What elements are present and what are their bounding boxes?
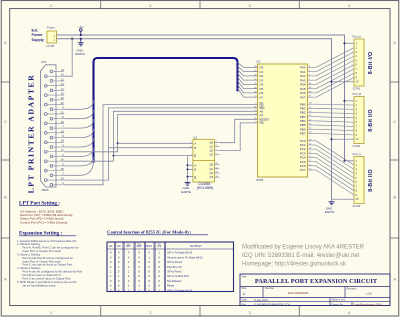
svg-text:A: A (195, 163, 197, 167)
svg-text:10: 10 (216, 176, 218, 178)
wire INIT to A0 (64, 111, 257, 161)
svg-text:Supply: Supply (32, 38, 45, 42)
bus data D0-D7 (94, 58, 238, 162)
svg-text:X: X (110, 279, 112, 283)
svg-text:1: 1 (216, 153, 217, 155)
svg-text:25: 25 (61, 73, 64, 77)
svg-text:Reset: Reset (167, 284, 174, 288)
svg-text:OP to Control Port: OP to Control Port (167, 274, 189, 278)
svg-text:B: B (394, 196, 397, 200)
svg-text:Drawn By:: Drawn By: (332, 302, 344, 306)
svg-text:+5V: +5V (78, 25, 83, 29)
svg-text:10: 10 (356, 137, 359, 141)
wire +5V to CON3 pin1 (343, 160, 345, 162)
svg-text:3: 3 (216, 145, 217, 147)
svg-text:PARALLEL PORT EXPANSION CIRCUI: PARALLEL PORT EXPANSION CIRCUIT (255, 278, 378, 285)
svg-text:EARTH: EARTH (75, 52, 84, 56)
svg-text:X: X (118, 288, 120, 292)
wires PC0-PC7 to CON3 (316, 141, 354, 165)
svg-text:1: 1 (190, 155, 191, 157)
svg-text:Q0: Q0 (210, 163, 214, 167)
svg-text:4: 4 (348, 311, 350, 315)
svg-text:4: 4 (216, 141, 217, 143)
svg-text:B: B (195, 168, 197, 172)
svg-text:X: X (118, 255, 120, 259)
power port +5V (80, 31, 82, 35)
wire Q2 to CS (220, 123, 258, 151)
bus entries from LPT data pins (64, 100, 93, 109)
wires PB0-PB7 to CON2 (316, 103, 354, 106)
svg-text:Q0: Q0 (210, 141, 214, 145)
svg-text:Ext.: Ext. (32, 29, 39, 33)
svg-text:EARTH: EARTH (181, 190, 191, 194)
svg-text:2: 2 (190, 142, 191, 144)
svg-text:Control Port (PC) = 5-Bits (Ou: Control Port (PC) = 5-Bits (Output) (20, 220, 67, 224)
svg-text:21: 21 (61, 110, 64, 114)
wire GND to CON3 pin10 and earth (332, 198, 355, 200)
svg-text:Control function of 8255 IC (F: Control function of 8255 IC (For Mode-0)… (107, 230, 192, 235)
svg-text:1: 1 (50, 311, 52, 315)
svg-text:IC3: IC3 (256, 60, 261, 64)
svg-text:X: X (128, 251, 130, 255)
svg-text:1.00: 1.00 (366, 292, 372, 296)
wire tap to U2 B (109, 147, 193, 149)
svg-text:OP in Tri-State (Hi-Z): OP in Tri-State (Hi-Z) (167, 251, 192, 255)
svg-text:X: X (128, 255, 130, 259)
svg-text:12: 12 (61, 77, 64, 81)
svg-text:23: 23 (61, 92, 64, 96)
svg-text:4: 4 (348, 4, 350, 8)
svg-text:CS: CS (157, 244, 161, 248)
svg-text:Title: Title (242, 274, 247, 278)
svg-text:File: File (242, 302, 247, 306)
svg-text:5-Jan-2001: 5-Jan-2001 (254, 298, 269, 302)
svg-text:14: 14 (61, 176, 64, 180)
svg-text:3: 3 (190, 147, 191, 149)
svg-text:2: 2 (149, 311, 151, 315)
wire +5V to CON1 pin1 (343, 42, 345, 44)
svg-text:10: 10 (356, 197, 359, 201)
svg-text:12: 12 (216, 167, 218, 169)
svg-text:OP to Port-C: OP to Port-C (167, 269, 182, 273)
svg-text:8255: 8255 (257, 178, 264, 182)
svg-text:Port_B: Port_B (353, 92, 362, 96)
svg-text:8-Bit I/O: 8-Bit I/O (368, 52, 374, 75)
svg-text:Port_C: Port_C (353, 152, 362, 156)
wire GND to CON2 pin10 (330, 138, 332, 140)
wire tap to U2 A (117, 142, 119, 144)
svg-text:2: 2 (149, 4, 151, 8)
title block (240, 274, 390, 306)
svg-text:Sheet 1 of 1: Sheet 1 of 1 (332, 298, 347, 302)
svg-text:13: 13 (61, 68, 64, 72)
svg-text:Number: Number (265, 286, 274, 290)
svg-text:X: X (118, 279, 120, 283)
svg-text:X: X (138, 251, 140, 255)
svg-text:10: 10 (61, 96, 64, 100)
svg-text:CS: CS (260, 121, 264, 125)
svg-text:OUTPUT: OUTPUT (190, 244, 202, 248)
svg-text:A: A (195, 142, 197, 146)
svg-text:11: 11 (61, 87, 64, 91)
ground GND EARTH under CON3 (331, 199, 333, 201)
svg-text:8-Bit I/O: 8-Bit I/O (368, 109, 374, 132)
svg-text:IC2: IC2 (193, 135, 198, 139)
wire +5V rail (57, 35, 345, 161)
ground GND EARTH under IC2 (185, 181, 191, 183)
svg-text:18: 18 (61, 139, 64, 143)
svg-text:3: 3 (249, 4, 251, 8)
svg-text:X: X (110, 255, 112, 259)
svg-text:All ports are in Tri-State (Hi: All ports are in Tri-State (Hi-Z) (167, 255, 203, 259)
svg-text:ICQ UIN: 52893381 E-mail: 4re: ICQ UIN: 52893381 E-mail: 4rester@ukr.ne… (242, 253, 360, 259)
svg-text:16: 16 (61, 158, 64, 162)
wire GND to CON1 pin10 (330, 81, 332, 83)
wire AUTOFD to WR (64, 108, 257, 180)
svg-text:Q1: Q1 (210, 167, 214, 171)
svg-text:Date: Date (242, 298, 248, 302)
wire +5V to CON2 pin1 (343, 100, 345, 102)
svg-text:Port-B to I/P: Port-B to I/P (167, 265, 182, 269)
svg-text:X: X (110, 284, 112, 288)
svg-text:CON1: CON1 (353, 87, 361, 91)
wire STROBE to RD (64, 105, 257, 185)
svg-text:X: X (138, 255, 140, 259)
svg-text:X: X (118, 284, 120, 288)
svg-text:CON4: CON4 (47, 44, 55, 48)
ground GND EARTH at power input (80, 39, 82, 43)
bus entries to IC3 data pins (238, 62, 258, 67)
svg-text:D: D (4, 41, 7, 45)
svg-text:D7: D7 (260, 95, 264, 99)
svg-text:Q2: Q2 (210, 149, 214, 153)
svg-text:PC7: PC7 (300, 168, 306, 172)
svg-text:Power: Power (32, 33, 44, 37)
svg-text:RST: RST (146, 244, 152, 248)
svg-text:2: 2 (216, 149, 217, 151)
svg-text:EARTH: EARTH (325, 210, 334, 214)
wire SELIN to A1 (64, 115, 257, 152)
svg-text:Port_A: Port_A (353, 35, 362, 39)
svg-text:Q3: Q3 (210, 153, 214, 157)
svg-text:(HC14555): (HC14555) (197, 186, 214, 190)
svg-text:8-Bit I/O: 8-Bit I/O (368, 169, 374, 192)
wires PA0-PA7 to CON1 (316, 48, 354, 68)
svg-text:X: X (158, 255, 160, 259)
svg-text:C: C (393, 120, 396, 124)
wire lower section inputs to ground chain (188, 164, 193, 166)
svg-text:DXA-00000026: DXA-00000026 (288, 291, 309, 295)
svg-text:B: B (4, 196, 7, 200)
svg-text:1: 1 (50, 4, 52, 8)
svg-text:DavidSilver Atomix (DSA): DavidSilver Atomix (DSA) (354, 304, 383, 307)
svg-text:X: X (110, 251, 112, 255)
svg-text:B: B (195, 146, 197, 150)
svg-text:A1: A1 (109, 244, 113, 248)
wire tap to U2 E (113, 155, 115, 157)
svg-text:15: 15 (61, 167, 64, 171)
zone ticks and labels (100, 1, 102, 9)
svg-text:A1: A1 (260, 113, 264, 117)
svg-text:DB25: DB25 (42, 188, 49, 192)
svg-text:22: 22 (61, 101, 64, 105)
svg-text:D:\HOBBY\EXPANDER.SCH: D:\HOBBY\EXPANDER.SCH (254, 303, 290, 307)
svg-text:OP in Tri-State (Hi-Z): OP in Tri-State (Hi-Z) (167, 288, 192, 292)
svg-text:X: X (110, 288, 112, 292)
svg-text:11: 11 (216, 172, 218, 174)
svg-text:PB7: PB7 (300, 131, 306, 135)
svg-text:set as handshaking mode: set as handshaking mode (23, 283, 56, 287)
svg-text:WR: WR (137, 244, 142, 248)
svg-text:13: 13 (216, 163, 218, 165)
svg-text:CON3: CON3 (353, 204, 361, 208)
svg-text:X: X (118, 251, 120, 255)
svg-text:PA7: PA7 (300, 95, 306, 99)
svg-text:A: A (4, 278, 7, 282)
svg-text:Size: Size (242, 286, 248, 290)
svg-text:10: 10 (356, 80, 359, 84)
svg-text:24: 24 (61, 82, 64, 86)
wire Q0 to RESET (220, 119, 258, 142)
svg-text:20: 20 (61, 120, 64, 124)
table 8255 control function (107, 242, 234, 292)
svg-text:OP to Port-A: OP to Port-A (167, 260, 182, 264)
svg-text:Q2: Q2 (210, 171, 214, 175)
svg-text:A0: A0 (117, 244, 121, 248)
svg-text:Power: Power (47, 26, 55, 30)
decoder IC2 CD4555 lower section (193, 160, 215, 182)
svg-text:RD: RD (126, 244, 130, 248)
svg-text:A: A (394, 278, 397, 282)
svg-text:Q3: Q3 (210, 175, 214, 179)
wire GND rail (57, 39, 332, 200)
svg-text:Q1: Q1 (210, 145, 214, 149)
svg-text:LPT PRINTER ADAPTER: LPT PRINTER ADAPTER (27, 74, 36, 194)
svg-text:C: C (4, 120, 7, 124)
svg-text:Homepage: http://4rester.gsmun: Homepage: http://4rester.gsmunlock.sk (242, 262, 347, 268)
svg-text:D: D (393, 41, 396, 45)
svg-text:Not Allowed: Not Allowed (167, 279, 182, 283)
svg-text:Modificated by Eugene Lisovy A: Modificated by Eugene Lisovy AKA 4RESTER (242, 244, 365, 250)
svg-text:CON2: CON2 (353, 144, 361, 148)
svg-text:LPT: LPT (41, 60, 47, 64)
svg-text:19: 19 (61, 129, 64, 133)
svg-text:Revision: Revision (347, 287, 358, 291)
wire LPT pin25 to GND (71, 38, 73, 40)
svg-text:17: 17 (61, 148, 64, 152)
svg-text:3: 3 (249, 311, 251, 315)
